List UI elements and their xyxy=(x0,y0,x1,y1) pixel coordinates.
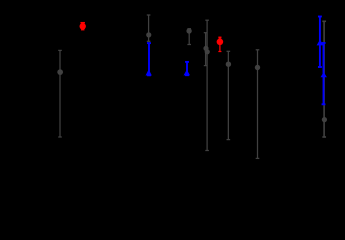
red errorbar B (x=219.9) xyxy=(217,38,224,52)
blue errorbar R2 (x=323.5) triangle marker xyxy=(321,43,327,104)
gray errorbar E2 (x=207.1, tall) xyxy=(205,20,210,150)
gray errorbar C right (x=324.3) xyxy=(322,21,327,137)
blue errorbar B0 (x=148.9) triangle marker xyxy=(146,43,152,75)
gray errorbar D (x=189.2) xyxy=(186,28,191,44)
gray errorbar F (x=228.35) xyxy=(226,51,231,139)
blue errorbar R1 (x=320.2) triangle marker xyxy=(317,17,324,68)
gray errorbar B (x=148.6) xyxy=(146,15,151,41)
gray errorbar G (x=257.5) xyxy=(255,50,260,159)
gray errorbar A (x=60) xyxy=(57,50,63,137)
gray errorbar E1 (x=205.6) xyxy=(203,33,208,66)
blue errorbar C (x=187) triangle marker xyxy=(184,62,191,76)
red errorbar A (x=82.7) xyxy=(80,23,86,30)
